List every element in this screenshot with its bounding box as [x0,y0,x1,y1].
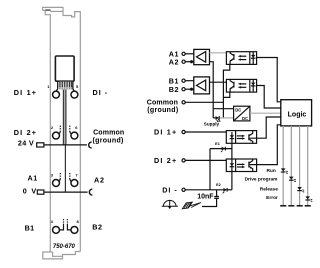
optocoupler A internals [230,52,255,65]
pin 1 [53,91,60,98]
svg-text:6: 6 [75,125,78,130]
wire V1 to DCDC upper [213,108,233,110]
24V supply rect symbol [37,143,44,147]
supply bottom wire [213,117,215,119]
svg-text:24 V: 24 V [18,138,34,147]
emitter wire optoB down [223,92,229,97]
svg-text:4: 4 [51,219,54,224]
driver U1 box [194,49,210,64]
shield clamp icon [182,202,201,209]
svg-text:Run: Run [266,168,275,174]
svg-text:Error: Error [266,195,278,201]
wire DCDC to Logic (gray) [250,112,281,114]
terminal circles schematic [182,52,185,191]
pin numbers [47,84,79,224]
svg-text:Supply: Supply [204,121,220,126]
junction dot B2 [190,88,193,91]
svg-text:DI 2+: DI 2+ [154,156,177,165]
junction dot A2 [190,60,193,63]
svg-text:(ground): (ground) [93,137,124,144]
svg-text:Release: Release [260,186,278,192]
svg-text:DI -: DI - [93,88,109,97]
LED labels [245,168,279,201]
24V / Common wire [44,144,87,146]
svg-text:DC: DC [235,108,241,113]
wires [185,54,232,190]
svg-text:B1: B1 [25,223,35,232]
svg-text:E1: E1 [215,142,220,146]
terminal circles [53,91,78,233]
LED Run [281,168,288,173]
row2 contact ticks [59,126,71,230]
DC/DC converter box [234,106,250,121]
pin 5 wire [73,82,75,92]
wire DI- after E2 [227,189,232,191]
svg-text:5: 5 [76,84,79,89]
optocoupler DI1 internals [230,131,253,144]
optocoupler B internals [230,79,255,92]
terminal DI2+ [182,159,185,162]
cable [63,90,66,145]
optocoupler DI2 box [226,159,256,172]
module latch dark mark [45,9,50,11]
svg-text:7: 7 [75,173,78,178]
wire Common [185,101,223,103]
emitter wire optoA down [223,64,229,118]
terminal B1 [182,79,185,82]
LED Release [297,187,304,192]
module labels [14,88,125,232]
wire optoB out [257,86,281,109]
svg-text:A1: A1 [28,173,38,182]
wire (center, below cable) [64,145,66,192]
svg-text:Drive program: Drive program [245,176,278,182]
row4 contact wires [59,224,63,230]
svg-text:DC: DC [242,116,248,121]
svg-text:A2: A2 [94,176,105,185]
svg-text:E2: E2 [216,183,221,187]
wire optoDI1 out [249,117,281,138]
terminal A2 [182,60,185,63]
pin 1 wire [56,82,58,92]
svg-text:3: 3 [51,173,54,178]
optocoupler DI2 internals [230,159,253,172]
wire A1 [185,53,194,55]
LED column lines [283,126,308,206]
svg-text:B2: B2 [92,223,102,232]
svg-text:A2: A2 [169,57,179,66]
driver U2 box [194,77,210,94]
optocoupler B box [226,79,256,92]
pin 7 [71,180,78,187]
terminal DI- [182,188,185,191]
svg-text:Common: Common [93,130,124,137]
terminal A1 [182,52,185,55]
wire bundle below block [59,82,73,90]
pin 5 [71,91,78,98]
wire DI2+ [185,159,232,161]
svg-text:B2: B2 [169,85,179,94]
wire DI- [185,189,223,191]
pin 2 [53,132,60,139]
Common bracket arc [89,142,92,148]
wire B1 [185,80,194,82]
wire A2 [185,61,194,63]
svg-text:DI 1+: DI 1+ [14,88,37,97]
svg-text:10nF: 10nF [197,193,214,200]
pin 6 [71,132,78,139]
optocoupler A box [226,52,256,65]
pin 4 [53,226,60,233]
wire driverB to optoB [210,81,227,83]
LED Error [305,196,312,201]
wire optoA out [257,58,281,102]
supply LED [215,116,219,120]
svg-text:0 V: 0 V [23,187,38,196]
svg-text:8: 8 [76,219,79,224]
connector block [55,56,74,81]
wire B2 [185,88,194,90]
optocoupler DI1 box [226,131,256,144]
LED chain vertical DI1->E1->DI2->E2 [231,143,233,190]
svg-text:DI 1+: DI 1+ [154,128,177,137]
0V rect symbol [37,190,44,194]
module 750-670 body outline [43,7,81,259]
svg-text:2: 2 [51,125,54,130]
svg-text:Common: Common [147,100,178,107]
row3 contact ticks [60,178,61,181]
0V / A2 wire [44,191,88,193]
A2 bracket arc [89,189,92,195]
vertical V3 [209,149,211,190]
pin 8 [71,226,78,233]
wire DI1+ [185,131,232,133]
svg-text:(ground): (ground) [147,107,178,114]
svg-text:DI -: DI - [162,185,178,194]
opto outputs to Logic [249,58,281,165]
vertical V1 from driver A [210,62,214,118]
terminal Common [182,101,185,104]
terminal B2 [182,88,185,91]
wire optoDI2 out [249,125,281,165]
svg-text:Logic: Logic [288,111,307,118]
Logic box [281,100,312,126]
schematic labels [154,49,179,194]
pin 3 [53,180,60,187]
svg-text:DI 2+: DI 2+ [14,128,37,137]
svg-text:750-670: 750-670 [53,244,76,250]
wire driverA to optoA (gray) [210,52,227,54]
terminal DI1+ [182,130,185,133]
LED Drive program [289,177,296,182]
ground PE symbol [162,200,178,206]
terminal bars [280,205,311,207]
